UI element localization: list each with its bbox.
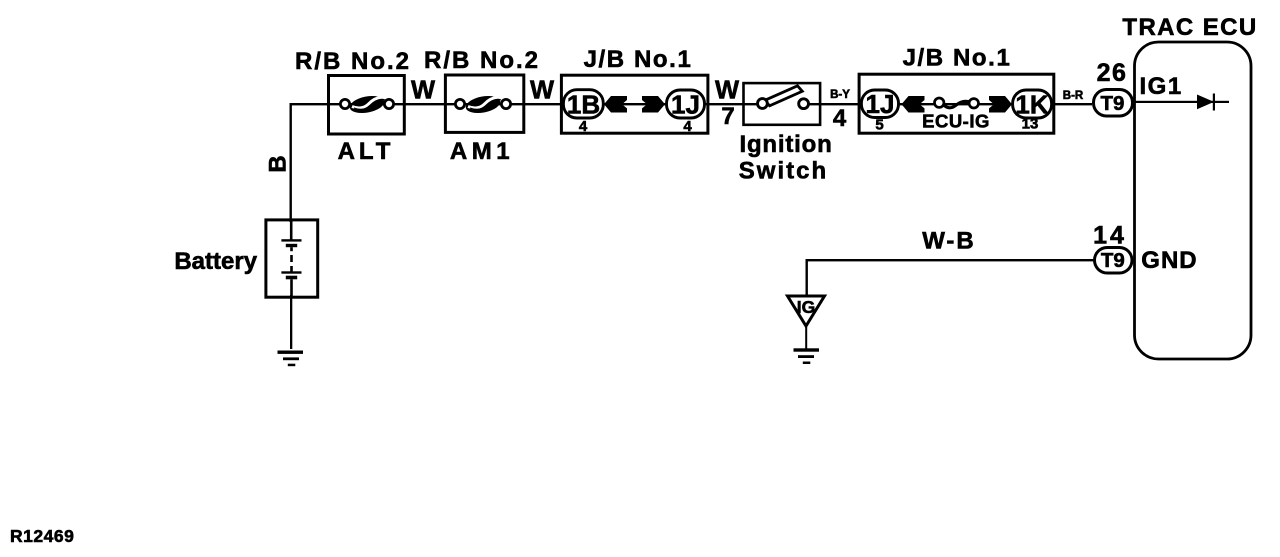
wire: IG1 internal line with direction arrow xyxy=(1135,101,1229,103)
arrow: signal direction at IG1 xyxy=(1197,95,1214,110)
svg-text:4: 4 xyxy=(833,105,847,132)
svg-text:7: 7 xyxy=(721,103,734,130)
svg-text:R/B No.2: R/B No.2 xyxy=(295,48,411,75)
svg-text:T9: T9 xyxy=(1101,92,1125,115)
svg-text:J/B No.1: J/B No.1 xyxy=(584,46,693,73)
connector 1J (second) xyxy=(861,89,898,119)
svg-text:GND: GND xyxy=(1141,247,1197,274)
svg-text:B-R: B-R xyxy=(1063,90,1084,102)
ignition switch box xyxy=(744,83,821,125)
tick bar after arrow xyxy=(1213,94,1215,111)
arrow right (toward 1K) xyxy=(989,96,1012,113)
svg-text:W: W xyxy=(411,77,436,105)
svg-text:Ignition: Ignition xyxy=(740,131,833,158)
relay box R/B No.2 (AM1) xyxy=(445,75,523,132)
battery box xyxy=(266,220,318,297)
svg-text:ECU-IG: ECU-IG xyxy=(922,110,990,131)
ground symbol (IG) xyxy=(794,348,820,364)
svg-text:R12469: R12469 xyxy=(10,526,74,546)
relay box R/B No.2 (ALT) xyxy=(329,76,405,135)
junction block J/B No.1 (first) xyxy=(561,75,708,133)
connector T9 (IG1) xyxy=(1094,90,1133,117)
svg-text:Switch: Switch xyxy=(739,157,828,184)
TRAC ECU box xyxy=(1135,42,1252,359)
svg-text:14: 14 xyxy=(1093,222,1127,250)
svg-text:T9: T9 xyxy=(1101,249,1125,272)
wire: vertical drop to IG ground point xyxy=(806,259,808,296)
fusible link ALT xyxy=(340,93,393,115)
arrow left (toward 1J) xyxy=(902,96,925,113)
wire: main bus from battery corner through ALT, AM1, J/B No.1 to ignition switch left contact xyxy=(290,103,764,105)
svg-text:B-Y: B-Y xyxy=(830,89,850,101)
wire: ignition switch right contact through J/B No.1 to T9 connector xyxy=(803,103,1092,105)
connector 1J (first) xyxy=(667,90,705,120)
svg-text:Battery: Battery xyxy=(174,248,257,275)
ground symbol (battery) xyxy=(278,351,304,367)
ignition switch contact left xyxy=(758,99,768,109)
svg-text:AM1: AM1 xyxy=(450,138,514,165)
svg-text:IG: IG xyxy=(797,297,815,317)
svg-text:5: 5 xyxy=(875,117,883,134)
svg-text:TRAC ECU: TRAC ECU xyxy=(1122,14,1257,41)
svg-text:W-B: W-B xyxy=(922,228,976,255)
svg-text:W: W xyxy=(530,77,555,105)
svg-text:ALT: ALT xyxy=(338,138,395,165)
wire: IG triangle to ground xyxy=(805,326,807,349)
junction block J/B No.1 (second) xyxy=(859,74,1054,133)
svg-text:R/B No.2: R/B No.2 xyxy=(424,47,540,74)
battery symbol xyxy=(281,221,301,297)
svg-text:13: 13 xyxy=(1022,116,1039,133)
wire: W-B ground wire horizontal xyxy=(806,259,1094,261)
connector T9 (GND) xyxy=(1095,248,1133,274)
svg-text:26: 26 xyxy=(1097,59,1128,87)
connector 1B xyxy=(563,90,603,120)
svg-text:IG1: IG1 xyxy=(1140,73,1183,100)
fusible link AM1 xyxy=(455,93,510,115)
svg-text:B: B xyxy=(264,155,291,172)
svg-text:1B: 1B xyxy=(567,90,600,120)
ground point IG triangle xyxy=(788,296,825,326)
arrow left (toward 1B) xyxy=(604,96,627,113)
ignition switch contact right xyxy=(799,99,809,109)
svg-text:J/B No.1: J/B No.1 xyxy=(903,45,1012,72)
arrow right (toward 1J) xyxy=(642,96,665,113)
wire: battery negative to ground xyxy=(290,295,292,349)
svg-text:W: W xyxy=(715,77,740,105)
connector 1K xyxy=(1013,90,1052,120)
ignition switch lever xyxy=(765,86,803,106)
fuse ECU-IG xyxy=(935,98,979,108)
svg-text:4: 4 xyxy=(683,118,692,135)
svg-text:1J: 1J xyxy=(671,90,700,120)
wire: battery positive vertical (B) xyxy=(290,103,292,222)
svg-text:1J: 1J xyxy=(866,89,895,119)
svg-text:4: 4 xyxy=(579,118,588,135)
